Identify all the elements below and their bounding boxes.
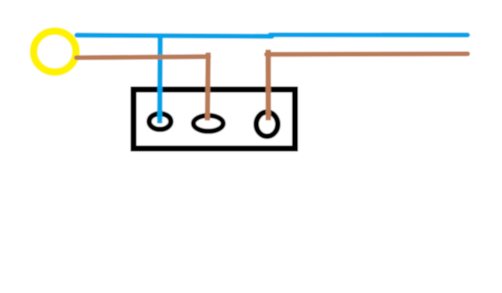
wire: brown vertical rise from terminal T3 [266, 50, 271, 120]
wire: blue vertical drop to terminal T1 [157, 36, 163, 124]
terminal T2 [193, 116, 223, 132]
terminal T1 [149, 114, 171, 130]
lamp L1 (yellow circle) [34, 31, 76, 72]
junction box (black rectangle) [134, 90, 296, 149]
wire: brown horizontal to right edge [267, 51, 468, 56]
wire: brown vertical drop to terminal T2 [205, 53, 211, 121]
wire: blue horizontal from lamp (left segment) [77, 35, 272, 36]
terminal T3 [256, 112, 278, 136]
wire: blue horizontal to right edge (right segment) [270, 32, 467, 37]
wire: brown horizontal from lamp [77, 57, 209, 58]
